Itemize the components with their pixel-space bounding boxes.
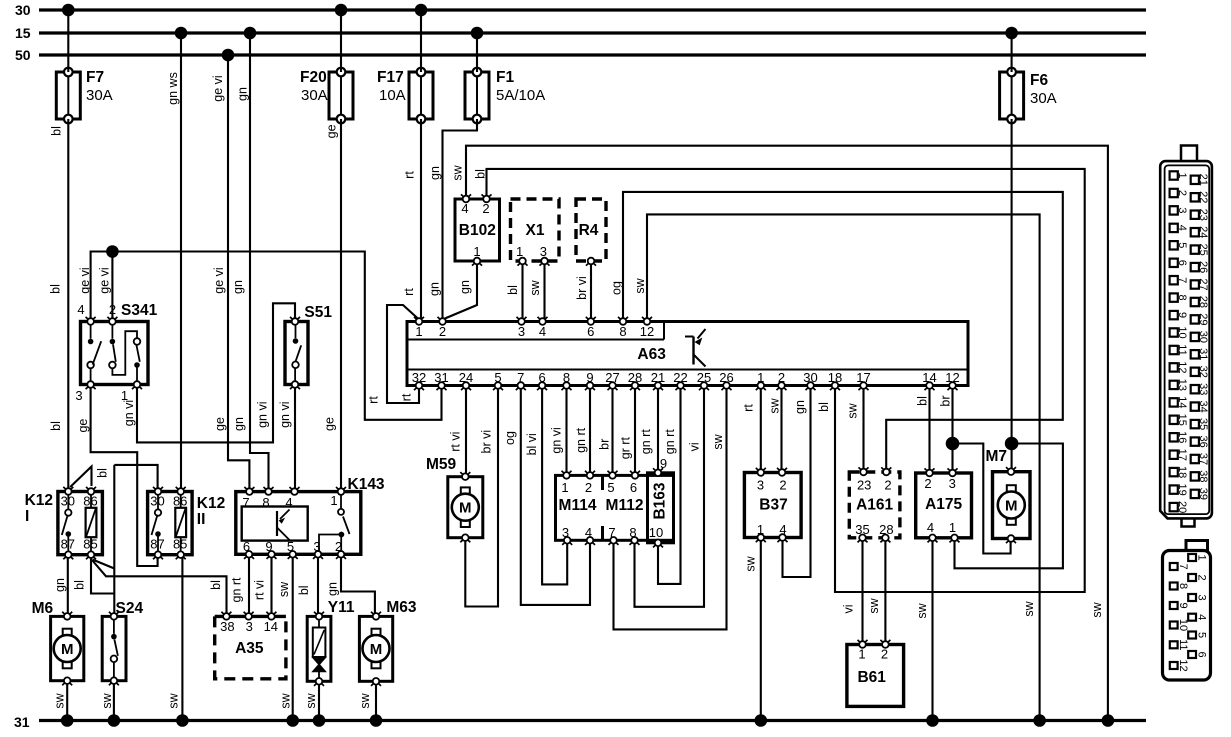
svg-text:29: 29: [1197, 313, 1209, 325]
svg-text:sw: sw: [100, 692, 114, 708]
svg-text:22: 22: [1197, 191, 1209, 203]
wire vi: A63 pin 25 to M112 pin 8: [635, 386, 705, 607]
svg-text:3: 3: [949, 476, 956, 491]
svg-text:gn vi: gn vi: [278, 401, 292, 427]
junction bus15/F1: [471, 27, 484, 40]
svg-text:M63: M63: [386, 599, 417, 616]
wire vi: A161 pin 35 to B61 pin 1: [842, 538, 863, 645]
wire sw: A161 pin 28 to B61 pin 2: [867, 538, 885, 645]
svg-text:ge: ge: [76, 419, 90, 433]
svg-text:30A: 30A: [1030, 90, 1057, 107]
svg-text:26: 26: [719, 370, 733, 385]
svg-text:1: 1: [473, 244, 480, 259]
relay K12 II: [148, 487, 226, 559]
svg-text:ge vi: ge vi: [78, 267, 92, 293]
svg-text:F7: F7: [86, 69, 104, 86]
svg-text:2: 2: [482, 201, 489, 216]
svg-text:sw: sw: [358, 692, 372, 708]
switch S341: [75, 302, 157, 403]
svg-text:12: 12: [1176, 361, 1188, 373]
svg-text:bl: bl: [473, 169, 487, 179]
svg-text:1: 1: [1176, 172, 1188, 178]
svg-text:2: 2: [779, 478, 786, 493]
motor M114: [556, 471, 674, 545]
svg-text:21: 21: [1197, 174, 1209, 186]
wire ge: fuse F20 to K143 pin 1: [322, 119, 341, 492]
svg-text:sw: sw: [166, 692, 180, 708]
svg-text:A63: A63: [637, 346, 666, 363]
svg-text:9: 9: [1176, 312, 1188, 318]
svg-text:7: 7: [517, 370, 524, 385]
svg-text:F20: F20: [300, 69, 327, 86]
svg-text:A161: A161: [856, 497, 893, 514]
svg-text:30A: 30A: [301, 87, 328, 104]
svg-text:86: 86: [173, 494, 187, 509]
wire ge vi: bus50 to K143 pin 7: [211, 55, 249, 492]
svg-text:F1: F1: [496, 69, 514, 86]
svg-text:br: br: [939, 395, 953, 406]
junction S341 pins 2/4 riser: [106, 245, 119, 258]
wire rt: A63 pin 1 to B37 pin 3: [742, 386, 761, 473]
wire bl branch: F7 wire to K12 I pin 86: [70, 467, 109, 488]
valve Y11: [307, 599, 355, 686]
svg-text:bl: bl: [915, 396, 929, 406]
connector block 39-pin (legend): [1160, 146, 1212, 527]
svg-text:sw: sw: [304, 692, 318, 708]
junction bus30/F20: [335, 4, 348, 17]
svg-text:38: 38: [1197, 470, 1209, 482]
svg-text:9: 9: [660, 456, 667, 471]
connector X1: [511, 199, 560, 266]
wire sw: A63 pin 26 to M112 pin 7: [614, 386, 727, 630]
svg-text:31: 31: [1197, 348, 1209, 360]
svg-text:rt vi: rt vi: [449, 432, 463, 452]
svg-text:11: 11: [1177, 639, 1189, 650]
svg-text:bl vi: bl vi: [525, 433, 539, 455]
svg-text:31: 31: [434, 370, 448, 385]
wire sw: motor M6 to bus31: [52, 681, 67, 721]
svg-text:M114: M114: [559, 497, 597, 514]
svg-text:1: 1: [757, 370, 764, 385]
wire sw: S24 to bus31: [100, 681, 114, 721]
svg-text:7: 7: [1177, 563, 1189, 569]
wire gr rt: A63 pin 28 to M112 pin 6: [619, 386, 635, 476]
svg-text:14: 14: [1176, 396, 1188, 408]
svg-text:sw: sw: [528, 279, 542, 295]
svg-text:24: 24: [1197, 226, 1209, 238]
svg-text:14: 14: [922, 370, 936, 385]
svg-text:18: 18: [828, 370, 842, 385]
sensor B61: [847, 640, 904, 707]
wire gn vi: S51 bottom to K143 pin 4: [278, 385, 295, 492]
svg-text:24: 24: [459, 370, 473, 385]
svg-text:33: 33: [1197, 383, 1209, 395]
svg-text:bl: bl: [817, 402, 831, 412]
junction B37/bus31: [755, 714, 768, 727]
svg-text:sw: sw: [915, 602, 929, 618]
wire ge vi: S341 pin 2 to A63 pin 31: [97, 252, 441, 420]
svg-text:II: II: [197, 511, 206, 528]
svg-text:gn vi: gn vi: [122, 400, 136, 426]
svg-text:9: 9: [1177, 602, 1189, 608]
svg-text:2: 2: [1196, 574, 1208, 580]
svg-text:6: 6: [538, 370, 545, 385]
switch S51: [285, 304, 332, 389]
svg-text:3: 3: [562, 525, 569, 540]
wire sw: X1 pin 3 to A63 pin 4: [528, 261, 544, 322]
svg-text:1: 1: [757, 522, 764, 537]
svg-text:34: 34: [1197, 400, 1209, 412]
wire bus15 to fuse F1: [476, 33, 478, 72]
svg-text:12: 12: [945, 370, 959, 385]
junction bus15/gn-ws: [175, 27, 188, 40]
svg-text:sw: sw: [633, 277, 647, 293]
svg-text:rt: rt: [402, 288, 416, 296]
wire bus30 to fuse F7: [67, 10, 69, 72]
wire gn: fuse F1 to A63 pin 2: [428, 119, 477, 320]
svg-text:50: 50: [15, 47, 31, 63]
svg-text:5: 5: [607, 480, 614, 495]
fuse F17 10A: [377, 68, 433, 124]
wire sw: A63 top pin 12 to bus31: [633, 214, 1039, 720]
svg-text:12: 12: [640, 324, 654, 339]
svg-text:K12: K12: [25, 492, 53, 509]
svg-text:3: 3: [246, 619, 253, 634]
svg-text:ge vi: ge vi: [97, 267, 111, 293]
junction K143-5/bus31: [286, 714, 299, 727]
wire rt vi: K143 pin 9 to A35 pin 14: [253, 554, 272, 616]
svg-text:6: 6: [587, 324, 594, 339]
sensor B163: [648, 456, 674, 547]
svg-text:3: 3: [1176, 207, 1188, 213]
junction bus15/F6: [1005, 27, 1018, 40]
svg-text:30: 30: [1197, 331, 1209, 343]
motor M112: [606, 497, 644, 514]
wire br vi: motor M59 to A63 pin 5: [465, 386, 498, 607]
svg-text:bl: bl: [297, 585, 311, 595]
svg-text:bl: bl: [209, 580, 223, 590]
svg-text:sw: sw: [711, 433, 725, 449]
fuse F20 30A: [300, 68, 353, 124]
svg-text:ge vi: ge vi: [211, 75, 225, 101]
svg-text:rt: rt: [403, 171, 417, 179]
svg-text:Y11: Y11: [328, 599, 355, 616]
svg-text:27: 27: [605, 370, 619, 385]
wire gn rt: A63 pin 21 to B163 pin 9: [639, 386, 658, 473]
svg-text:1: 1: [121, 388, 128, 403]
junction bus30/F7: [62, 4, 75, 17]
svg-text:1: 1: [330, 493, 337, 508]
wire branch: F6 wire to A175 pin 1: [955, 444, 1063, 569]
svg-text:B61: B61: [857, 669, 886, 686]
svg-text:sw: sw: [1022, 600, 1036, 616]
net 15 (ignition bus): [15, 25, 1146, 41]
svg-text:25: 25: [1197, 243, 1209, 255]
junction M6/bus31: [61, 714, 74, 727]
wire bl vi: A63 pin 6 to M114 pin 3: [525, 386, 567, 585]
relay K12 I: [25, 487, 103, 559]
svg-text:10: 10: [1176, 326, 1188, 338]
svg-text:21: 21: [651, 370, 665, 385]
wire sw: B37 pin 1 to bus31: [744, 538, 761, 721]
wire bus30 to fuse F20: [340, 10, 342, 72]
wire bus30 to fuse F17: [420, 10, 422, 72]
wire gn rt: K143 pin 6 to A35 pin 3: [230, 554, 249, 616]
wire bl: fuse F7 to K12 I pin 30: [49, 119, 69, 489]
svg-text:gn: gn: [458, 280, 472, 294]
svg-text:8: 8: [262, 495, 269, 510]
wire bus15 to fuse F6: [1011, 33, 1013, 72]
svg-text:13: 13: [1176, 379, 1188, 391]
svg-text:5: 5: [1176, 242, 1188, 248]
svg-text:4: 4: [461, 201, 468, 216]
svg-text:gr rt: gr rt: [619, 437, 633, 460]
control unit A63: [407, 317, 968, 390]
svg-text:1: 1: [415, 324, 422, 339]
svg-text:sw: sw: [52, 692, 66, 708]
svg-text:gn vi: gn vi: [550, 427, 564, 453]
svg-text:1: 1: [949, 520, 956, 535]
connector block 12-pin (legend): [1163, 541, 1211, 681]
svg-text:18: 18: [1176, 466, 1188, 478]
svg-text:10A: 10A: [379, 87, 406, 104]
svg-text:2: 2: [585, 480, 592, 495]
wire gn: B37 pin 4 to A63 pin 30: [783, 386, 811, 578]
svg-text:3: 3: [540, 244, 547, 259]
svg-text:rt vi: rt vi: [253, 580, 267, 600]
wire bl: B102 pin 2 to A63 pin 18: [473, 169, 1084, 592]
wire gn rt: A63 pin 22 to B163 pin 10: [658, 386, 681, 584]
svg-text:gn rt: gn rt: [574, 427, 588, 453]
svg-text:8: 8: [1177, 583, 1189, 589]
svg-text:gn ws: gn ws: [166, 72, 180, 105]
svg-text:7: 7: [242, 495, 249, 510]
svg-text:2: 2: [109, 302, 116, 317]
svg-text:ge: ge: [322, 417, 336, 431]
motor M7: [986, 448, 1031, 543]
svg-text:sw: sw: [279, 692, 293, 708]
svg-text:B102: B102: [459, 222, 496, 239]
wire rt: A63 pin 32 loop to pin 1: [387, 305, 419, 403]
svg-text:gn: gn: [235, 87, 249, 101]
switch S24: [102, 600, 143, 685]
svg-text:37: 37: [1197, 453, 1209, 465]
svg-text:1: 1: [516, 244, 523, 259]
wire bl: K12 I pin 85 to A35 pin 38: [92, 560, 227, 616]
svg-text:15: 15: [15, 25, 31, 41]
svg-text:vi: vi: [687, 442, 701, 451]
svg-text:85: 85: [83, 537, 97, 552]
svg-text:6: 6: [630, 480, 637, 495]
svg-text:4: 4: [77, 302, 84, 317]
svg-text:bl: bl: [49, 284, 63, 294]
svg-text:bl: bl: [96, 468, 110, 478]
svg-text:ge: ge: [324, 124, 338, 138]
svg-text:86: 86: [83, 494, 97, 509]
svg-text:7: 7: [1176, 277, 1188, 283]
svg-text:gn rt: gn rt: [639, 429, 653, 455]
svg-text:rt: rt: [366, 396, 380, 404]
wire br vi: R4 pin to A63 pin 6 top: [575, 261, 591, 322]
svg-text:F17: F17: [377, 69, 404, 86]
svg-text:30: 30: [15, 2, 31, 18]
svg-text:17: 17: [856, 370, 870, 385]
svg-text:12: 12: [1177, 659, 1189, 671]
svg-text:X1: X1: [526, 222, 545, 239]
svg-text:A175: A175: [925, 496, 962, 513]
wire sw: A63 pin 2 to B37 pin 2: [767, 386, 781, 473]
svg-text:8: 8: [629, 525, 636, 540]
svg-text:14: 14: [264, 619, 278, 634]
junction S24/bus31: [108, 714, 121, 727]
svg-text:85: 85: [173, 537, 187, 552]
wire br: A63 pin 12 to A175 pin 3: [939, 386, 953, 474]
svg-text:4: 4: [585, 525, 592, 540]
svg-text:gn: gn: [793, 400, 807, 414]
svg-text:19: 19: [1176, 483, 1188, 495]
svg-text:87: 87: [150, 537, 164, 552]
svg-text:1: 1: [561, 480, 568, 495]
svg-text:6: 6: [1176, 260, 1188, 266]
svg-text:4: 4: [927, 520, 934, 535]
control unit A161: [849, 467, 900, 542]
svg-text:gn: gn: [232, 417, 246, 431]
motor M6: [32, 600, 84, 685]
svg-text:30: 30: [61, 494, 75, 509]
svg-text:31: 31: [14, 714, 30, 730]
wire rt: fuse F17 to A63 pin 1: [402, 119, 421, 320]
svg-text:30: 30: [803, 370, 817, 385]
svg-text:35: 35: [855, 522, 869, 537]
relay K143: [236, 476, 385, 559]
svg-text:br vi: br vi: [575, 276, 589, 300]
svg-text:10: 10: [649, 525, 663, 540]
junction F6-wire / A175 branch: [1005, 437, 1019, 451]
svg-text:S51: S51: [304, 304, 332, 321]
svg-text:32: 32: [412, 370, 426, 385]
svg-text:2: 2: [881, 647, 888, 662]
wire gn ws: bus15 to K12 II pin 86: [166, 33, 181, 492]
svg-text:F6: F6: [1030, 72, 1048, 89]
wire ge vi: S341 pin 4 riser: [78, 252, 112, 322]
svg-text:gn: gn: [53, 578, 67, 592]
svg-text:og: og: [609, 281, 623, 295]
motor M63: [359, 599, 417, 686]
svg-text:bl: bl: [50, 126, 64, 136]
svg-text:4: 4: [285, 495, 292, 510]
svg-text:R4: R4: [579, 222, 599, 239]
junction bus50/ge-vi: [222, 49, 235, 62]
wire br: A63 pin 27 to M112 pin 5: [598, 386, 613, 476]
svg-text:rt: rt: [742, 404, 756, 412]
fuse F7 30A: [56, 68, 112, 124]
svg-text:23: 23: [857, 478, 871, 493]
svg-text:og: og: [503, 431, 517, 445]
wire gn rt: A63 pin 9 to M114 pin 2: [574, 386, 590, 476]
control unit B102: [455, 194, 500, 265]
svg-text:gn rt: gn rt: [663, 429, 677, 455]
junction bus15/gn: [244, 27, 257, 40]
svg-text:sw: sw: [277, 581, 291, 597]
svg-text:S341: S341: [121, 302, 158, 319]
net 50 (starter bus): [15, 47, 1146, 63]
svg-text:2: 2: [884, 478, 891, 493]
svg-text:sw: sw: [845, 402, 859, 418]
svg-text:32: 32: [1197, 366, 1209, 378]
svg-text:4: 4: [1176, 225, 1188, 231]
svg-text:22: 22: [673, 370, 687, 385]
svg-text:8: 8: [563, 370, 570, 385]
svg-text:sw: sw: [744, 555, 758, 571]
svg-text:39: 39: [1197, 488, 1209, 500]
svg-text:br: br: [598, 439, 612, 450]
svg-text:38: 38: [220, 619, 234, 634]
svg-text:15: 15: [1176, 414, 1188, 426]
svg-text:bl: bl: [49, 421, 63, 431]
svg-text:3: 3: [757, 478, 764, 493]
svg-text:B37: B37: [759, 497, 787, 514]
svg-text:28: 28: [879, 522, 893, 537]
svg-text:25: 25: [697, 370, 711, 385]
svg-text:36: 36: [1197, 435, 1209, 447]
wire gn: K143 pin 2 to motor M63: [326, 554, 375, 616]
svg-text:2: 2: [1176, 190, 1188, 196]
svg-text:ge: ge: [213, 417, 227, 431]
svg-text:K143: K143: [348, 476, 385, 493]
svg-text:26: 26: [1197, 261, 1209, 273]
wire sw: A63 pin 17 to A161 pin 23: [845, 386, 863, 473]
svg-text:sw: sw: [867, 597, 881, 613]
junction A175/bus31: [926, 714, 939, 727]
svg-text:gn: gn: [428, 166, 442, 180]
svg-text:K12: K12: [197, 495, 225, 512]
wire bl: A63 pin 14 to A175 pin 2: [915, 386, 929, 474]
svg-text:M112: M112: [606, 497, 644, 514]
junction sw/bus31 mid-right: [1033, 714, 1046, 727]
junction Y11/bus31: [313, 714, 326, 727]
svg-text:11: 11: [1176, 344, 1188, 355]
junction br wire / M7 branch: [946, 437, 960, 451]
svg-text:9: 9: [586, 370, 593, 385]
wire sw: B102 pin 4 to bus31: [451, 146, 1108, 721]
svg-text:23: 23: [1197, 209, 1209, 221]
svg-text:6: 6: [1196, 651, 1208, 657]
svg-text:S24: S24: [116, 600, 144, 617]
svg-text:sw: sw: [767, 397, 781, 413]
control unit B37: [744, 468, 801, 542]
radio R4: [576, 199, 606, 266]
svg-text:30A: 30A: [86, 87, 113, 104]
svg-text:2: 2: [924, 476, 931, 491]
wire branch br: to motor M7 bottom: [953, 444, 1011, 554]
control unit A35: [215, 612, 286, 679]
svg-text:17: 17: [1176, 449, 1188, 461]
wire sw: K12 II pin 85 to bus31: [166, 555, 182, 721]
svg-text:1: 1: [858, 647, 865, 662]
svg-text:10: 10: [1177, 619, 1189, 631]
svg-text:B163: B163: [652, 482, 669, 519]
svg-text:gn: gn: [428, 282, 442, 296]
svg-text:gn rt: gn rt: [230, 577, 244, 603]
svg-text:M6: M6: [32, 600, 54, 617]
wire ge: S341 pin 3 to K12 II pin 87: [76, 385, 158, 567]
junction M63/bus31: [370, 714, 383, 727]
wire sw: M63 to bus31: [358, 681, 376, 720]
fuse F6 30A: [1000, 68, 1057, 124]
svg-text:bl: bl: [506, 285, 520, 295]
wire gn: K12 I pin 87 to motor M6: [53, 555, 68, 617]
wire sw: A175 pin 4 to bus31: [915, 538, 933, 721]
